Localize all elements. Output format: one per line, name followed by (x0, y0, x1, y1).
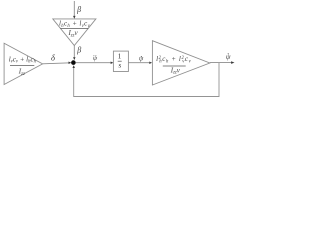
gain block right: (lh^2 ch + lv^2 cv)/(Izz v) (152, 41, 209, 85)
label psi dot (yaw rate, mid) (139, 55, 144, 63)
arrowhead into integrator (111, 61, 114, 64)
svg-text:lhch + lvcv: lhch + lvcv (59, 19, 91, 28)
gain block left: (lv cv + lh ch)/Izz (4, 43, 43, 84)
summing junction (node) (71, 60, 76, 65)
label psi double-dot (yaw acceleration) (93, 55, 98, 62)
svg-text:s: s (118, 61, 121, 70)
output arrowhead (231, 61, 234, 64)
feedback wire (tap after right gain, down, along bottom, up into summing junction) (74, 63, 219, 97)
gain block top: (lh ch + lv cv)/(Izz v) (53, 19, 96, 46)
svg-text:1: 1 (118, 52, 122, 61)
wire left gain to summing junction (43, 63, 71, 64)
svg-text:l2hch + l2vcv: l2hch + l2vcv (156, 55, 192, 64)
svg-text:lvcv + lhch: lvcv + lhch (9, 55, 37, 64)
wire from top gain apex down to summing junction (73, 46, 75, 60)
wire integrator to right gain (128, 62, 149, 64)
svg-text:ψ: ψ (139, 55, 144, 63)
input arrow beta (top) (73, 1, 76, 19)
arrowhead into right gain (149, 61, 152, 64)
output wire psi dot (210, 62, 232, 64)
svg-text:β: β (76, 5, 81, 14)
svg-text:β: β (76, 46, 81, 55)
arrowhead into summing junction from bottom (72, 65, 75, 68)
wire summing junction to integrator (76, 62, 111, 64)
integrator block 1/s (113, 51, 128, 71)
arrowhead into summing junction from top (73, 57, 76, 60)
svg-text:ψ: ψ (226, 52, 231, 61)
label psi dot (output) (226, 52, 231, 61)
arrowhead into summing junction from left (69, 61, 72, 64)
